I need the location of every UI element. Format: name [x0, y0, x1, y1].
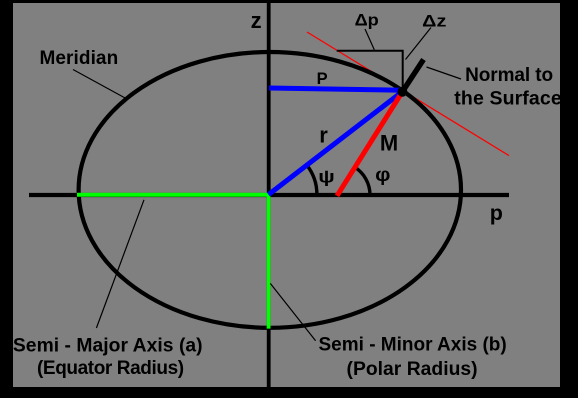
- svg-text:Semi - Major Axis (a): Semi - Major Axis (a): [13, 335, 203, 356]
- svg-text:Δp: Δp: [355, 11, 379, 30]
- svg-text:the Surface: the Surface: [454, 87, 562, 109]
- normal segment (thick black): [403, 60, 424, 92]
- svg-text:p: p: [490, 201, 503, 225]
- red M line: [337, 92, 403, 196]
- svg-text:Semi - Minor Axis (b): Semi - Minor Axis (b): [319, 334, 507, 355]
- point blob: [397, 87, 407, 97]
- delta-p leader: [365, 29, 374, 50]
- phi angle arc: [355, 167, 370, 195]
- svg-text:Normal to: Normal to: [465, 65, 553, 86]
- delta box: [337, 51, 403, 90]
- svg-text:r: r: [319, 122, 328, 147]
- meridian leader: [73, 70, 126, 99]
- tangent line (thin red): [307, 32, 509, 156]
- svg-text:M: M: [380, 130, 398, 155]
- blue r line: [269, 92, 403, 195]
- p axis: [29, 193, 509, 197]
- svg-text:φ: φ: [375, 165, 390, 186]
- svg-text:(Polar Radius): (Polar Radius): [347, 359, 478, 380]
- svg-text:P: P: [317, 70, 328, 88]
- svg-text:ψ: ψ: [318, 166, 335, 186]
- psi angle arc: [307, 165, 317, 194]
- svg-text:(Equator Radius): (Equator Radius): [37, 358, 184, 379]
- semi-minor axis green line: [267, 193, 271, 329]
- delta-z leader: [406, 28, 432, 60]
- semi-minor leader: [270, 283, 315, 340]
- svg-text:Δz: Δz: [422, 12, 446, 31]
- z axis: [267, 3, 271, 387]
- semi-major leader: [96, 200, 144, 328]
- blue P line: [269, 88, 403, 90]
- svg-text:Meridian: Meridian: [40, 48, 119, 69]
- semi-major axis green line: [77, 193, 271, 197]
- svg-text:z: z: [251, 8, 262, 33]
- meridian ellipse: [79, 52, 461, 328]
- normal leader: [427, 67, 462, 79]
